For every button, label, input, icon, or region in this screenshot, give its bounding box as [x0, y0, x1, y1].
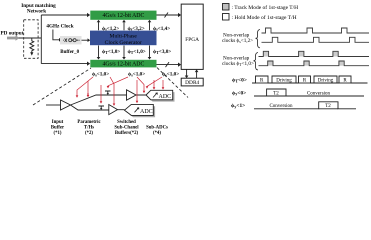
- svg-text:T/Hs: T/Hs: [84, 126, 94, 131]
- svg-text:(*2): (*2): [85, 131, 93, 136]
- wire: clock phase up arrow 1: [98, 22, 100, 31]
- wire: red control 3a: [147, 77, 162, 86]
- wire: red control 1c: [100, 85, 102, 102]
- brace group 2: [254, 53, 259, 71]
- waveform: Conversion / T2 row b: [254, 102, 356, 109]
- waveform: phi_s wave B: [262, 37, 370, 42]
- ADC block: top 4Gs/s 12-bit ADC: [90, 11, 156, 20]
- wire: bottom ADC to FPGA (bus): [157, 64, 179, 66]
- svg-text:4Gs/s 12-bit ADC: 4Gs/s 12-bit ADC: [102, 62, 144, 68]
- wire: DDR4 to FPGA up arrow: [196, 72, 198, 79]
- wire: red control 2c: [136, 80, 138, 101]
- block: FPGA: [181, 4, 203, 69]
- waveform: R / Driving row: [252, 76, 368, 83]
- svg-text:ϕT<3,0>: ϕT<3,0>: [153, 49, 171, 55]
- svg-text:4Gs/s 12-bit ADC: 4Gs/s 12-bit ADC: [102, 13, 144, 19]
- legend: track mode square: [223, 4, 230, 11]
- svg-text:Sub-ADCs: Sub-ADCs: [146, 126, 168, 131]
- svg-text:T2: T2: [273, 91, 279, 96]
- buffer: top sub-channel buffer triangle: [127, 90, 137, 100]
- wire: slice input: [46, 104, 61, 106]
- wire: clock phase down arrow 1: [98, 46, 100, 58]
- switch: bottom sampling switch: [99, 106, 105, 108]
- callout dashed line left: [33, 68, 91, 105]
- svg-text:ϕs<3,2>: ϕs<3,2>: [128, 26, 145, 32]
- svg-text:Buffers(*2): Buffers(*2): [115, 131, 139, 136]
- svg-text:Switched: Switched: [117, 120, 136, 125]
- wire: red control 2a: [108, 77, 128, 86]
- svg-text:Buffer: Buffer: [51, 126, 65, 131]
- buffer: bottom sub-channel buffer triangle: [109, 105, 118, 115]
- waveform: phi_T wave C (gray filled pulses): [263, 51, 268, 56]
- svg-text:clocks ϕT<1,0>: clocks ϕT<1,0>: [222, 61, 254, 67]
- wire: fan-out wedge to two sub-channels: [71, 95, 147, 110]
- svg-text:ADC: ADC: [159, 94, 172, 100]
- svg-text:ADC: ADC: [140, 109, 153, 115]
- block: Multi-Phase Clock Generator: [90, 31, 157, 46]
- wire: to bottom ADC: [41, 63, 87, 65]
- switch: top sampling switch: [105, 91, 111, 93]
- brace group 1: [256, 30, 261, 48]
- svg-text:ϕs<1,4>: ϕs<1,4>: [153, 26, 170, 32]
- svg-text:ϕy<1>: ϕy<1>: [231, 103, 245, 109]
- waveform: phi_T wave D (gray filled pulses): [268, 61, 273, 66]
- wire: top ADC to FPGA (bus): [157, 14, 179, 16]
- svg-text:ϕs<1,2>: ϕs<1,2>: [102, 26, 119, 32]
- PD output signal arrow (gray block arrow): [7, 35, 20, 40]
- wire: red control 3c: [162, 80, 164, 88]
- callout dashed line right: [157, 68, 188, 98]
- wire: clock phase up arrow 2: [123, 22, 125, 31]
- ADC block: bottom 4Gs/s 12-bit ADC: [90, 60, 156, 68]
- wire: clock phase up arrow 3: [149, 22, 151, 31]
- svg-text:Clock Generator: Clock Generator: [105, 40, 142, 46]
- wire: red control 1b: [87, 81, 89, 95]
- wire: red control 2b: [137, 77, 144, 91]
- svg-text:Sub-Chanel: Sub-Chanel: [114, 126, 139, 131]
- legend: hold mode square: [223, 14, 230, 21]
- wire: buffer to clock generator: [82, 39, 89, 41]
- svg-text:4GHz Clock: 4GHz Clock: [46, 23, 73, 29]
- svg-text:ϕs<1,0>: ϕs<1,0>: [92, 72, 109, 78]
- input matching network dashed box: [24, 20, 38, 59]
- svg-text:Network: Network: [27, 9, 46, 15]
- wire: PD output to split node: [19, 37, 42, 39]
- svg-text:ϕy<0>: ϕy<0>: [232, 90, 246, 96]
- svg-text:(*1): (*1): [54, 131, 62, 136]
- wire: to top ADC: [41, 14, 87, 16]
- wire: clock L-shaped feed: [53, 30, 60, 40]
- svg-text:Driving: Driving: [276, 79, 292, 84]
- wire: FPGA to DDR4 down arrow: [186, 69, 188, 76]
- wire: red control 1a: [77, 77, 93, 96]
- wire: red control 3b: [153, 80, 155, 88]
- svg-text:ϕs<1,0>: ϕs<1,0>: [128, 72, 145, 78]
- svg-text:ϕT<0>: ϕT<0>: [232, 78, 247, 84]
- svg-text:ϕT<1,0>: ϕT<1,0>: [102, 49, 120, 55]
- svg-text:Driving: Driving: [318, 79, 334, 84]
- svg-text:: Hold Mode of 1st-stage T/H: : Hold Mode of 1st-stage T/H: [232, 14, 297, 21]
- resistor (termination in matching network): [30, 38, 34, 53]
- svg-text:Conversion: Conversion: [269, 104, 293, 109]
- svg-text:ϕs<1,0>: ϕs<1,0>: [162, 72, 179, 78]
- block: DDR4: [181, 78, 203, 86]
- wire: red control 1d: [110, 77, 114, 104]
- svg-text:Parametric: Parametric: [77, 120, 101, 125]
- svg-text:Buffer_0: Buffer_0: [60, 50, 79, 55]
- svg-text:: Track Mode of 1st-stage T/H: : Track Mode of 1st-stage T/H: [232, 4, 299, 11]
- svg-text:T2: T2: [325, 104, 331, 109]
- svg-text:PD output: PD output: [1, 30, 24, 36]
- svg-text:DDR4: DDR4: [185, 80, 199, 86]
- svg-text:(*4): (*4): [153, 131, 161, 136]
- sub-ADC top (shadowed tag box): [148, 92, 175, 102]
- wire: split vertical: [40, 15, 42, 64]
- svg-text:FPGA: FPGA: [185, 37, 199, 43]
- sub-ADC bottom (shadowed tag box): [126, 106, 155, 117]
- wire: clock phase down arrow 2: [123, 46, 125, 58]
- svg-text:clocks ϕs<1,2>: clocks ϕs<1,2>: [222, 38, 253, 44]
- svg-text:Multi-Phase: Multi-Phase: [110, 34, 138, 40]
- wire: clock phase down arrow 3: [149, 46, 151, 58]
- svg-text:ϕT<1,0>: ϕT<1,0>: [128, 49, 146, 55]
- waveform: T2 / Conversion row a: [254, 89, 364, 96]
- waveform: phi_s wave A: [262, 28, 370, 33]
- buffer: input buffer triangle: [61, 100, 71, 110]
- svg-text:Input: Input: [52, 120, 64, 125]
- svg-text:Conversion: Conversion: [307, 91, 331, 96]
- buffer Buffer_0 (clock buffer symbol): [60, 36, 82, 44]
